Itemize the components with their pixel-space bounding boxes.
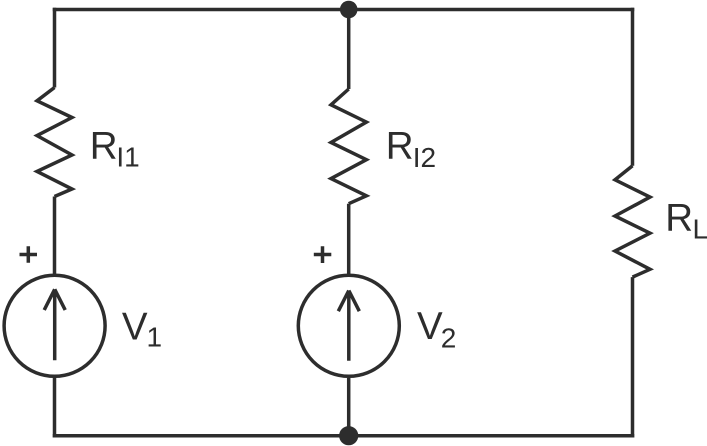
wire middle branch upper xyxy=(347,8,351,89)
wire RI1 to V1 xyxy=(53,197,57,276)
svg-text:V: V xyxy=(417,305,443,348)
wire right branch upper xyxy=(631,8,635,166)
svg-text:R: R xyxy=(90,125,118,168)
arrow V1 xyxy=(44,289,65,360)
wire V1 to bottom rail xyxy=(53,378,57,438)
svg-text:2: 2 xyxy=(441,323,457,354)
resistor RI1 xyxy=(37,88,72,197)
resistor RI2 xyxy=(331,89,366,204)
wire RL to bottom rail xyxy=(631,277,635,437)
wire bottom rail xyxy=(53,434,635,438)
node bottom junction xyxy=(339,426,358,445)
svg-text:R: R xyxy=(386,125,414,168)
voltage source V2 xyxy=(298,275,399,376)
svg-text:I2: I2 xyxy=(413,142,436,173)
wire top rail xyxy=(53,8,635,12)
wire V2 to bottom rail xyxy=(347,378,351,437)
svg-text:L: L xyxy=(693,214,707,245)
arrow V2 xyxy=(338,291,359,361)
voltage source V1 xyxy=(4,275,105,376)
svg-text:1: 1 xyxy=(147,322,163,353)
svg-text:V: V xyxy=(122,305,148,348)
wire RI2 to V2 xyxy=(347,204,351,275)
resistor RL xyxy=(615,166,650,277)
plus sign V1 xyxy=(20,246,38,263)
svg-text:I1: I1 xyxy=(116,142,139,173)
node top junction xyxy=(340,1,358,19)
svg-text:R: R xyxy=(665,197,693,240)
wire left branch upper xyxy=(53,8,57,88)
plus sign V2 xyxy=(314,246,332,263)
